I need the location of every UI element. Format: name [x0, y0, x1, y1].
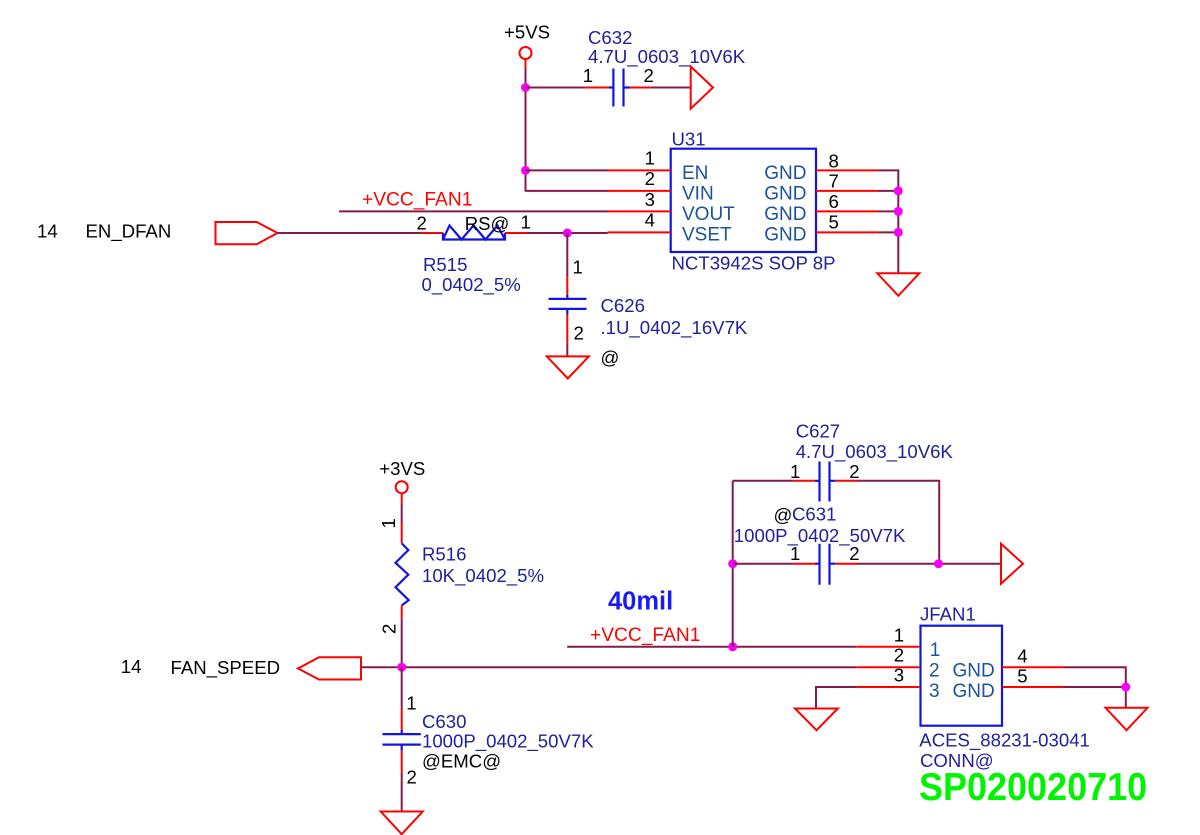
junction dot C631 left — [728, 559, 737, 568]
wire riser C627/C631 — [732, 481, 734, 647]
power arrow symbol right of C632 — [691, 67, 713, 109]
U31 pin 5 stub — [816, 231, 878, 233]
resistor R515 body — [443, 226, 505, 240]
wire C632 to power arrow — [651, 87, 691, 89]
U31 pin 4 stub — [608, 231, 671, 233]
wire R516 to C630 — [401, 667, 403, 709]
svg-text:3: 3 — [894, 665, 904, 686]
JFAN1 pin 3 stub — [856, 686, 919, 688]
svg-text:VSET: VSET — [682, 225, 732, 246]
resistor R516 pin 2 stub — [401, 605, 403, 618]
ground symbol right of JFAN1 — [1106, 708, 1148, 730]
power pin stub below +3VS circle — [401, 493, 403, 503]
wire C631 to power arrow — [858, 563, 1002, 565]
JFAN1 pin 4 stub — [1002, 666, 1063, 668]
svg-text:1: 1 — [406, 692, 416, 713]
port symbol EN_DFAN — [216, 222, 278, 244]
svg-text:1: 1 — [790, 461, 800, 482]
wire EN branch — [526, 169, 608, 171]
svg-text:GND: GND — [764, 204, 806, 225]
capacitor C630 pin 2 stub — [401, 751, 403, 773]
svg-text:FAN_SPEED: FAN_SPEED — [171, 657, 281, 679]
capacitor C627 pin 2 stub — [835, 480, 857, 482]
JFAN1 pin 5 stub — [1002, 686, 1063, 688]
power symbol +5VS circle — [520, 47, 532, 59]
svg-text:ACES_88231-03041: ACES_88231-03041 — [919, 730, 1090, 752]
svg-text:GND: GND — [953, 661, 995, 682]
IC U31 box — [671, 149, 816, 252]
svg-text:2: 2 — [417, 213, 427, 234]
svg-text:SP020020710: SP020020710 — [919, 765, 1147, 809]
capacitor C626 pin 1 stub — [566, 276, 568, 296]
JFAN1 pin 1 stub — [856, 646, 919, 648]
svg-text:GND: GND — [953, 681, 995, 702]
port symbol FAN_SPEED — [298, 657, 361, 679]
wire +VCC_FAN1 to U31 pin3 — [339, 210, 608, 212]
svg-text:0_0402_5%: 0_0402_5% — [422, 274, 521, 296]
svg-text:2: 2 — [929, 661, 940, 682]
svg-text:1: 1 — [894, 625, 904, 646]
svg-text:1000P_0402_50V7K: 1000P_0402_50V7K — [422, 731, 594, 753]
svg-text:8: 8 — [829, 151, 839, 172]
junction dot FAN_SPEED/R516 — [397, 663, 406, 672]
junction dot at EN branch — [521, 166, 530, 175]
wire +5VS vertical — [525, 68, 527, 192]
svg-text:+VCC_FAN1: +VCC_FAN1 — [362, 190, 472, 211]
svg-text:4.7U_0603_10V6K: 4.7U_0603_10V6K — [588, 46, 746, 68]
svg-text:GND: GND — [764, 163, 806, 184]
svg-text:@: @ — [601, 347, 620, 368]
svg-text:C626: C626 — [601, 295, 645, 316]
JFAN1 pin 2 stub — [856, 666, 919, 668]
svg-text:+3VS: +3VS — [379, 458, 425, 479]
svg-text:RS@: RS@ — [465, 213, 510, 234]
svg-text:GND: GND — [764, 225, 806, 246]
junction dot JFAN1 pin5 — [1121, 683, 1130, 692]
svg-text:2: 2 — [849, 461, 859, 482]
capacitor C630 plates — [383, 730, 421, 751]
svg-text:4: 4 — [645, 210, 655, 231]
svg-text:5: 5 — [829, 211, 839, 232]
svg-text:40mil: 40mil — [608, 588, 673, 616]
svg-text:2: 2 — [407, 767, 417, 788]
svg-text:JFAN1: JFAN1 — [920, 604, 976, 625]
svg-text:2: 2 — [378, 624, 399, 634]
U31 pin 6 stub — [816, 210, 878, 212]
wire junction to C626 — [566, 233, 568, 276]
svg-text:U31: U31 — [672, 129, 706, 150]
U31 pin 3 stub — [608, 210, 671, 212]
wire +VCC_FAN1 to JFAN1 pin1 — [567, 646, 856, 648]
svg-text:2: 2 — [644, 65, 654, 86]
capacitor C632 pin 1 stub — [585, 87, 609, 89]
capacitor C626 pin 2 stub — [566, 315, 568, 344]
svg-text:7: 7 — [829, 171, 839, 192]
power pin stub below +5VS circle — [525, 59, 527, 68]
svg-text:4.7U_0603_10V6K: 4.7U_0603_10V6K — [796, 441, 954, 463]
svg-text:4: 4 — [1017, 646, 1027, 667]
svg-text:EN_DFAN: EN_DFAN — [86, 221, 172, 243]
svg-text:3: 3 — [929, 681, 940, 702]
wire JFAN1 pins 4/5 to ground — [1064, 667, 1126, 708]
svg-text:@: @ — [774, 505, 793, 526]
wire R516 to FAN_SPEED — [401, 619, 403, 668]
svg-text:+VCC_FAN1: +VCC_FAN1 — [590, 625, 700, 646]
svg-text:EN: EN — [682, 163, 708, 184]
svg-text:2: 2 — [849, 543, 859, 564]
svg-text:2: 2 — [645, 168, 655, 189]
svg-text:1: 1 — [645, 148, 655, 169]
U31 pin 8 stub — [816, 169, 878, 171]
svg-text:2: 2 — [574, 323, 584, 344]
wire C630 to ground — [401, 772, 403, 811]
svg-text:C631: C631 — [792, 504, 836, 525]
svg-text:1000P_0402_50V7K: 1000P_0402_50V7K — [734, 525, 906, 547]
ground symbol below JFAN1 pin3 — [795, 709, 838, 731]
capacitor C627 plates — [815, 462, 835, 502]
svg-text:14: 14 — [121, 656, 142, 677]
svg-text:6: 6 — [829, 191, 839, 212]
wire C627 to right riser — [858, 481, 940, 564]
svg-text:+5VS: +5VS — [504, 22, 550, 43]
resistor R515 pin 2 stub — [422, 232, 443, 234]
power arrow symbol right of C631 — [1001, 544, 1023, 584]
wire to C632 — [526, 87, 586, 89]
svg-text:.1U_0402_16V7K: .1U_0402_16V7K — [601, 317, 748, 339]
capacitor C630 pin 1 stub — [401, 709, 403, 731]
svg-text:C627: C627 — [796, 421, 840, 442]
wire VIN branch — [526, 190, 608, 192]
capacitor C631 pin 1 stub — [793, 563, 815, 565]
junction dot GND pin5 — [894, 228, 903, 237]
wire C631 left — [733, 563, 794, 565]
junction dot VCC_FAN1 riser — [728, 642, 737, 651]
U31 pin 1 stub — [608, 169, 671, 171]
junction dot at +5VS/C632 — [521, 83, 530, 92]
wire U31 GND pins to vertical — [878, 170, 898, 273]
svg-text:VIN: VIN — [682, 183, 714, 204]
svg-text:GND: GND — [764, 183, 806, 204]
wire +3VS to R516 — [401, 503, 403, 522]
resistor R516 body — [396, 543, 409, 605]
svg-text:R515: R515 — [423, 254, 467, 275]
svg-text:1: 1 — [521, 212, 531, 233]
wire C626 to ground — [566, 343, 568, 356]
svg-text:1: 1 — [790, 543, 800, 564]
junction dot GND pin6 — [894, 207, 903, 216]
U31 pin 2 stub — [608, 190, 671, 192]
capacitor C632 pin 2 stub — [629, 87, 650, 89]
svg-text:1: 1 — [378, 518, 399, 528]
svg-text:2: 2 — [894, 645, 904, 666]
svg-text:NCT3942S SOP 8P: NCT3942S SOP 8P — [672, 252, 836, 273]
ground symbol right of U31 — [877, 273, 919, 296]
resistor R516 pin 1 stub — [401, 523, 403, 544]
svg-text:C630: C630 — [422, 711, 466, 732]
capacitor C626 plates — [549, 295, 587, 315]
power symbol +3VS circle — [396, 481, 408, 493]
connector JFAN1 box — [921, 626, 1003, 726]
capacitor C627 pin 1 stub — [793, 480, 815, 482]
wire FAN_SPEED to JFAN1 pin2 — [361, 666, 856, 668]
ground symbol below C630 — [381, 812, 423, 835]
svg-text:R516: R516 — [422, 543, 466, 564]
svg-text:5: 5 — [1017, 666, 1027, 687]
wire R515 to junction and pin4 — [527, 232, 608, 234]
ground symbol below C626 — [547, 356, 589, 378]
svg-text:1: 1 — [930, 640, 941, 661]
wire EN_DFAN to R515 — [278, 232, 422, 234]
capacitor C631 plates — [815, 544, 835, 585]
capacitor C631 pin 2 stub — [835, 563, 857, 565]
junction dot GND pin7 — [894, 186, 903, 195]
wire JFAN1 pin3 to ground — [816, 687, 856, 709]
svg-text:@EMC@: @EMC@ — [422, 751, 501, 772]
svg-text:1: 1 — [583, 65, 593, 86]
junction dot C631 right — [934, 559, 943, 568]
svg-text:14: 14 — [37, 220, 58, 241]
resistor R515 pin 1 stub — [505, 232, 527, 234]
svg-text:10K_0402_5%: 10K_0402_5% — [422, 565, 544, 587]
wire top loop to C627 — [733, 480, 794, 482]
U31 pin 7 stub — [816, 190, 878, 192]
svg-text:1: 1 — [573, 257, 583, 278]
svg-text:VOUT: VOUT — [682, 204, 735, 225]
svg-text:3: 3 — [645, 189, 655, 210]
capacitor C632 plates — [609, 69, 630, 107]
junction dot R515/C626 — [563, 229, 572, 238]
